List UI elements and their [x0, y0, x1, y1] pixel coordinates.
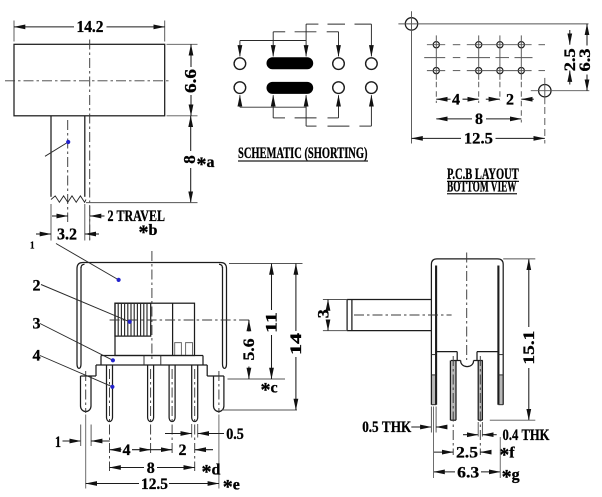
mounting hole 1 vertical / 12.5 extension — [411, 11, 413, 143]
svg-text:3: 3 — [33, 315, 41, 332]
top wire B dashed — [273, 31, 338, 33]
dimension 2.5 pcb — [562, 30, 579, 85]
dimension 4 front — [110, 442, 151, 459]
part label 3 — [33, 315, 116, 362]
top view horizontal center line — [5, 80, 171, 82]
svg-text:6.3: 6.3 — [577, 49, 594, 72]
dimension 8 *a — [180, 116, 215, 203]
actuator lever — [347, 300, 431, 331]
dimension 6.3 side — [434, 464, 520, 488]
arrow to bottom circle 3 — [338, 95, 340, 118]
dimension 8 front — [110, 460, 221, 483]
svg-text:6.6: 6.6 — [181, 69, 200, 93]
frame leg center lines — [86, 371, 219, 489]
pcb layout title — [447, 166, 519, 183]
shaft break zigzag — [51, 196, 86, 202]
side view leg and pin fills — [431, 361, 503, 421]
dimension 1 front — [55, 425, 110, 452]
svg-text:0.4 THK: 0.4 THK — [503, 427, 550, 444]
dimension 11 — [264, 264, 281, 380]
dimension 12.5 front — [86, 476, 240, 497]
front view frame inner wall left — [77, 264, 85, 368]
arrow to bar top right — [305, 24, 307, 56]
side view vertical center line — [466, 253, 468, 361]
dimension 2 TRAVEL — [52, 208, 165, 244]
dimension 2 front — [151, 442, 213, 459]
arrow to bar bottom left — [272, 95, 274, 118]
svg-text:15.1: 15.1 — [521, 331, 538, 365]
side top extension line — [503, 258, 535, 260]
mounting hole 1 horizontal line — [398, 23, 588, 25]
dimension 14 — [288, 264, 305, 411]
pcb pad row line top — [427, 44, 545, 46]
arrow to bottom circle 1 — [239, 95, 241, 107]
dimension 15.1 — [521, 259, 538, 420]
svg-text:0.5: 0.5 — [226, 426, 244, 443]
shorting contact bar top — [267, 57, 314, 69]
base contact dividers — [144, 356, 161, 366]
schematic terminal circles bottom row — [234, 82, 377, 94]
dimension 3 lever — [316, 300, 347, 331]
terminal pins front view — [107, 365, 198, 422]
svg-text:2.5: 2.5 — [456, 445, 478, 462]
svg-text:2: 2 — [179, 442, 187, 459]
front view vertical center line — [151, 251, 153, 359]
dimension 14.2 — [14, 17, 165, 36]
dimension 12.5 pcb — [412, 130, 545, 147]
frame leg left — [81, 376, 92, 412]
svg-text:4: 4 — [452, 91, 460, 108]
part label 2 — [33, 278, 132, 324]
svg-text:0.5 THK: 0.5 THK — [362, 419, 411, 436]
extension line at shaft end — [86, 202, 198, 204]
dimension 6.6 extension lines — [167, 44, 198, 116]
mounting hole 2 cross lines — [531, 78, 590, 144]
shorting contact bar bottom — [267, 82, 314, 94]
side view wall left — [431, 265, 436, 405]
svg-text:14.2: 14.2 — [77, 17, 104, 36]
side view back pin — [478, 361, 482, 421]
svg-text:2: 2 — [33, 278, 41, 295]
svg-text:6.3: 6.3 — [457, 464, 479, 481]
part label 1 — [30, 241, 121, 283]
svg-text:12.5: 12.5 — [464, 130, 493, 147]
dimension 3.2 — [36, 225, 99, 244]
knob horizontal center line — [110, 319, 252, 321]
pin center lines — [110, 369, 195, 471]
bottom wire A solid — [240, 106, 306, 108]
svg-text:1: 1 — [55, 434, 61, 451]
dimension 6.6 — [181, 44, 200, 116]
knob hatched grip — [115, 303, 151, 336]
top wire C dashed — [306, 23, 371, 25]
arrow to top circle 3 — [338, 32, 340, 57]
dimension 2.5 side — [434, 444, 515, 466]
pcb mounting hole 1 — [405, 18, 417, 30]
bottom wire B dashed — [273, 117, 338, 119]
svg-text:1: 1 — [30, 241, 35, 252]
svg-text:12.5: 12.5 — [141, 476, 168, 493]
bottom view title — [447, 179, 517, 196]
top view slider shaft — [51, 116, 85, 197]
pcb mounting hole 2 — [539, 85, 551, 97]
svg-text:14: 14 — [288, 333, 305, 355]
svg-text:11: 11 — [264, 312, 281, 333]
svg-text:3.2: 3.2 — [57, 225, 77, 244]
slider knob outline — [115, 303, 195, 355]
shaft center line — [67, 120, 69, 222]
slider slots — [175, 343, 193, 356]
svg-text:8: 8 — [147, 460, 155, 477]
side view wall right — [498, 265, 503, 405]
side bottom extension line — [490, 419, 536, 421]
note *c — [261, 379, 278, 401]
pcb pad row line bottom — [427, 70, 545, 72]
svg-text:5.6: 5.6 — [241, 339, 258, 361]
dimension 5.6 — [241, 320, 258, 379]
svg-text:3: 3 — [316, 309, 333, 318]
svg-text:2: 2 — [506, 91, 514, 108]
side view front pin — [450, 361, 456, 421]
top view vertical center line — [89, 40, 91, 241]
schematic title — [238, 145, 368, 162]
arrow to top circle 4 — [370, 24, 372, 56]
top view: switch body rectangle — [14, 44, 165, 116]
leader to shaft center — [45, 140, 70, 156]
pcb pads — [433, 42, 524, 74]
base plate — [81, 356, 224, 377]
side view base bottom profile — [436, 352, 498, 367]
front view right extension lines — [222, 264, 303, 411]
frame leg right — [214, 376, 224, 412]
front view frame inner wall right — [219, 264, 227, 368]
lever center line — [354, 314, 452, 316]
svg-text:4: 4 — [123, 442, 131, 459]
slider divider line — [172, 303, 174, 355]
dimension 0.4 THK — [463, 422, 550, 444]
shaft edge extension lines below break — [51, 204, 85, 241]
front view body outer frame — [77, 263, 227, 365]
dimension 8 pcb — [436, 111, 521, 128]
dimension 2 pcb — [486, 91, 534, 108]
side dimension extension verticals — [434, 407, 501, 479]
svg-text:BOTTOM VIEW: BOTTOM VIEW — [447, 179, 517, 196]
pin D edge extensions — [192, 424, 198, 438]
svg-text:SCHEMATIC (SHORTING): SCHEMATIC (SHORTING) — [238, 145, 368, 162]
dimension 4 pcb — [436, 91, 478, 108]
side view body top edge — [431, 259, 503, 265]
dimension 0.5 THK — [362, 407, 447, 437]
svg-text:4: 4 — [33, 348, 41, 365]
top wire A solid — [240, 40, 306, 42]
svg-text:8: 8 — [475, 111, 483, 128]
pcb pad column center lines — [436, 35, 521, 122]
bottom wire C dashed — [306, 125, 371, 127]
side pin center lines — [453, 356, 480, 455]
dimension 14.2 extension lines — [14, 21, 165, 42]
dimension 0.5 front — [165, 426, 244, 443]
arrow to bar bottom right — [305, 95, 307, 126]
arrow to bottom circle 4 — [370, 95, 372, 126]
pcb middle center line — [424, 57, 532, 59]
part label 4 — [33, 348, 115, 389]
arrow to bar top left — [272, 32, 274, 57]
schematic terminal circles top row — [234, 58, 377, 70]
arrow to top circle 1 — [239, 41, 241, 57]
dimension 6.3 pcb — [577, 24, 594, 91]
